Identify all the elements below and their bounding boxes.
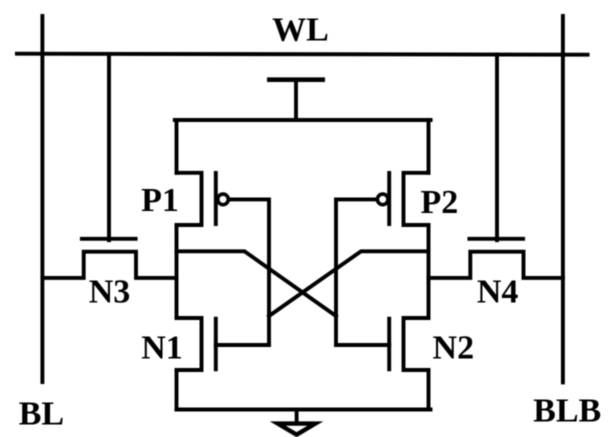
- svg-text:N4: N4: [477, 274, 519, 311]
- svg-text:P2: P2: [421, 184, 459, 221]
- svg-text:BL: BL: [19, 395, 64, 432]
- svg-text:BLB: BLB: [533, 392, 601, 429]
- svg-text:N2: N2: [433, 329, 475, 366]
- svg-text:N3: N3: [89, 274, 131, 311]
- svg-text:P1: P1: [141, 182, 179, 219]
- svg-text:WL: WL: [272, 12, 329, 49]
- svg-text:N1: N1: [141, 329, 183, 366]
